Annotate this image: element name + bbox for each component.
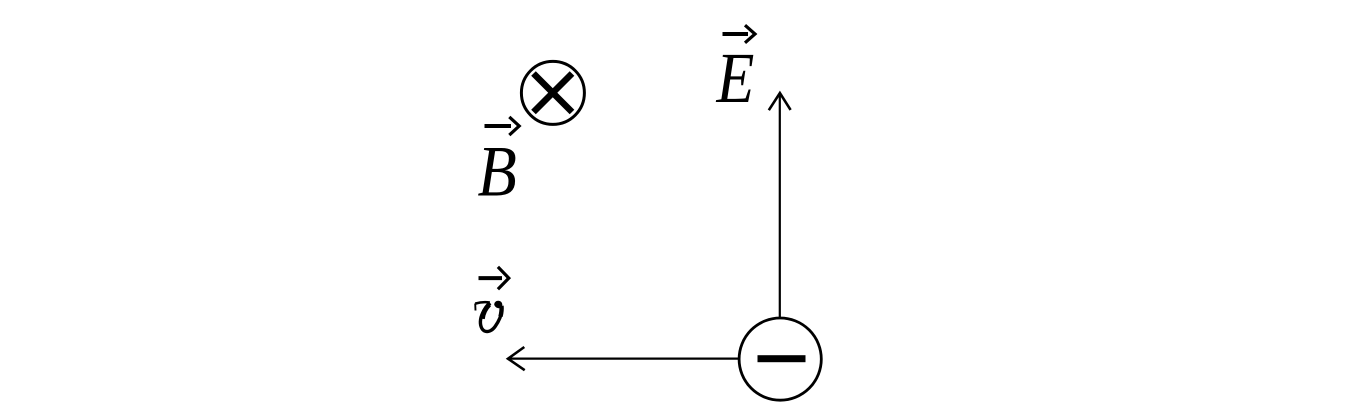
- B-field into-page symbol: X cross: [534, 74, 573, 113]
- label v (math italic, drawn): [475, 301, 502, 332]
- E-field arrow shaft (vertical wire): [779, 95, 781, 318]
- velocity arrow shaft (horizontal wire): [510, 358, 738, 360]
- minus sign: [758, 355, 806, 362]
- B-field into-page symbol: circle: [521, 61, 584, 124]
- svg-text:E: E: [716, 38, 755, 118]
- svg-text:B: B: [478, 131, 517, 211]
- velocity arrowhead: [508, 347, 525, 370]
- vector arrow over E: [723, 25, 756, 43]
- vector arrow over v: [479, 267, 509, 289]
- negative charge circle: [739, 318, 821, 400]
- E-field arrowhead: [769, 93, 791, 110]
- vector arrow over B: [485, 117, 520, 135]
